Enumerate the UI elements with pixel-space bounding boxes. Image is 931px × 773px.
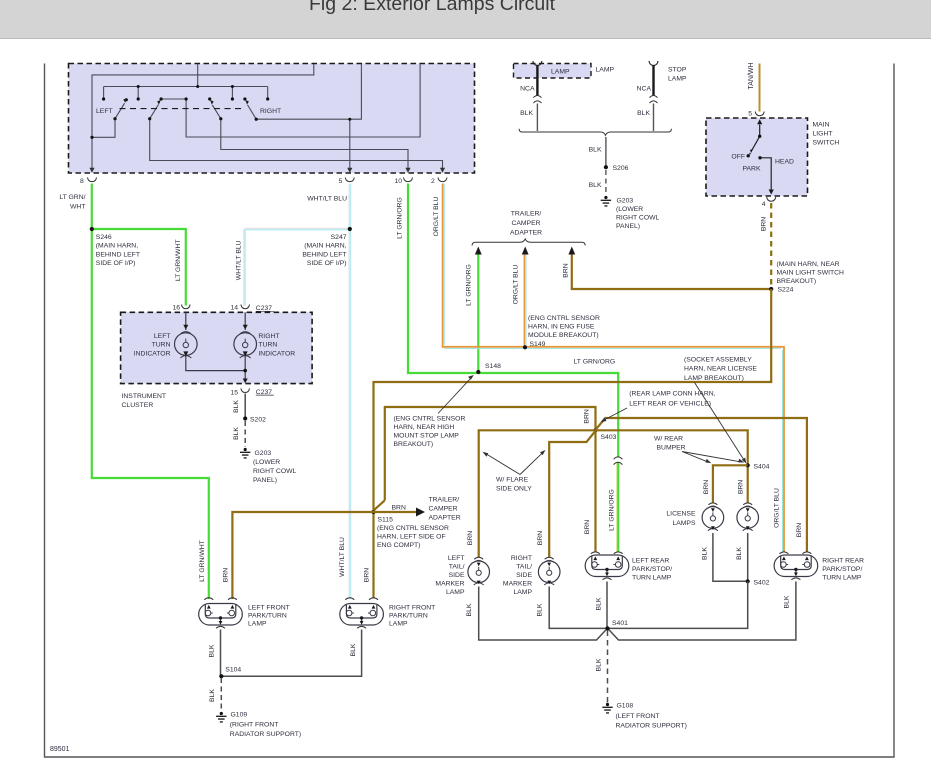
svg-text:PARK/STOP/: PARK/STOP/ xyxy=(822,566,862,573)
wire BLK pin 15 to S202 xyxy=(244,394,246,418)
svg-text:ADAPTER: ADAPTER xyxy=(510,229,542,236)
label TAN/WH (rotated) xyxy=(748,62,755,89)
svg-text:BREAKOUT): BREAKOUT) xyxy=(394,441,434,448)
svg-text:PARK/TURN: PARK/TURN xyxy=(248,612,287,619)
svg-text:BLK: BLK xyxy=(520,110,533,117)
pin 2 label and connector xyxy=(431,177,447,185)
svg-text:LT GRN/WHT: LT GRN/WHT xyxy=(199,540,206,582)
pin 5 of main light switch xyxy=(748,111,764,118)
svg-text:LEFT: LEFT xyxy=(448,555,465,562)
svg-text:TAN/WH: TAN/WH xyxy=(748,62,755,89)
svg-text:BEHIND LEFT: BEHIND LEFT xyxy=(302,251,346,258)
svg-text:BLK: BLK xyxy=(784,595,791,608)
wire BLK right license to S402 xyxy=(747,533,749,580)
svg-text:RIGHT COWL: RIGHT COWL xyxy=(616,215,660,222)
wire BLK left rear lamp to S401 xyxy=(606,582,608,628)
wire LT GRN/WHT branch to left turn indicator xyxy=(92,229,186,306)
svg-text:LEFT: LEFT xyxy=(96,108,113,115)
svg-text:BRN: BRN xyxy=(222,568,229,582)
wire BRN S403 to left tail marker lamp xyxy=(479,430,596,557)
splice S246 xyxy=(90,227,140,267)
svg-text:BLK: BLK xyxy=(589,147,602,154)
svg-text:WHT: WHT xyxy=(70,204,85,211)
svg-text:(MAIN HARN, NEAR: (MAIN HARN, NEAR xyxy=(777,261,840,268)
svg-text:(ENG CNTRL SENSOR: (ENG CNTRL SENSOR xyxy=(394,415,466,422)
svg-text:LAMP: LAMP xyxy=(551,69,570,76)
svg-text:(LEFT FRONT: (LEFT FRONT xyxy=(616,713,660,720)
svg-text:LAMP: LAMP xyxy=(248,620,267,627)
svg-text:S401: S401 xyxy=(612,620,628,627)
svg-text:BEHIND LEFT: BEHIND LEFT xyxy=(96,251,140,258)
wire BRN main run S224 to S115 xyxy=(374,289,772,599)
figure number 89501 xyxy=(50,746,70,753)
wire BLK S402 to S401 xyxy=(610,581,748,628)
svg-text:S402: S402 xyxy=(754,579,770,586)
svg-text:BLK: BLK xyxy=(589,182,602,189)
label BRN (left front lamp, rotated) xyxy=(222,568,229,582)
svg-text:(REAR LAMP CONN HARN,: (REAR LAMP CONN HARN, xyxy=(629,391,715,398)
svg-text:BLK: BLK xyxy=(596,597,603,610)
svg-text:BRN: BRN xyxy=(761,217,768,231)
svg-text:STOP: STOP xyxy=(668,67,687,74)
svg-text:LAMP: LAMP xyxy=(668,76,687,83)
svg-text:BLK: BLK xyxy=(209,644,216,657)
splice S402 xyxy=(746,579,770,586)
svg-text:CAMPER: CAMPER xyxy=(511,220,540,227)
svg-text:LAMPS: LAMPS xyxy=(672,520,696,527)
label BLK (rotated) xyxy=(233,400,240,413)
ground G203 (lower right cowl panel, left) xyxy=(240,448,297,484)
wire BLK right marker to S401 xyxy=(549,587,605,629)
svg-text:HARN, IN ENG FUSE: HARN, IN ENG FUSE xyxy=(528,323,595,330)
svg-text:HARN, NEAR LICENSE: HARN, NEAR LICENSE xyxy=(684,366,757,373)
svg-text:(RIGHT FRONT: (RIGHT FRONT xyxy=(230,721,279,728)
label BLK (right rear lamp, rotated) xyxy=(784,595,791,608)
svg-text:TRAILER/: TRAILER/ xyxy=(511,210,542,217)
junction dot at indicator commons xyxy=(243,369,247,373)
splice S202 xyxy=(243,416,266,423)
svg-text:BRN: BRN xyxy=(467,531,474,545)
svg-text:PARK/STOP/: PARK/STOP/ xyxy=(632,566,672,573)
svg-text:S224: S224 xyxy=(778,287,794,294)
ground G109 xyxy=(216,712,301,738)
label BLK (right front, rotated) xyxy=(350,643,357,656)
svg-text:G203: G203 xyxy=(617,198,634,205)
switch contact dots xyxy=(90,85,351,139)
wire BRN S403 to S404 xyxy=(596,430,748,503)
svg-text:LT GRN/ORG: LT GRN/ORG xyxy=(608,489,615,531)
main light switch box xyxy=(706,118,808,196)
label ORG/LT BLU (branch, rotated) xyxy=(512,265,519,305)
svg-text:ENG COMPT): ENG COMPT) xyxy=(377,542,420,549)
svg-text:LT GRN/: LT GRN/ xyxy=(59,194,85,201)
svg-text:OFF: OFF xyxy=(731,154,745,161)
svg-text:BLK: BLK xyxy=(702,547,709,560)
main light switch internals xyxy=(751,125,771,191)
wire BRN branch to S403 (rear lamps) xyxy=(374,407,596,511)
svg-text:G108: G108 xyxy=(617,703,634,710)
svg-text:TURN: TURN xyxy=(258,342,277,349)
svg-text:14: 14 xyxy=(230,305,238,312)
svg-text:LT GRN/ORG: LT GRN/ORG xyxy=(574,359,616,366)
lamp: right license xyxy=(737,503,759,531)
svg-text:BLK: BLK xyxy=(466,603,473,616)
label WHT/LT BLU (top) xyxy=(307,196,347,203)
instrument cluster box xyxy=(121,312,313,383)
splice S401 xyxy=(605,620,628,631)
svg-text:LT GRN/WHT: LT GRN/WHT xyxy=(175,239,182,281)
lamp: right rear park/stop/turn xyxy=(774,552,818,580)
svg-text:S202: S202 xyxy=(250,417,266,424)
label BLK (left license, rotated) xyxy=(702,547,709,560)
text RIGHT TAIL/SIDE MARKER LAMP xyxy=(503,555,533,596)
svg-text:16: 16 xyxy=(172,305,180,312)
svg-text:5: 5 xyxy=(339,178,343,185)
svg-text:(LOWER: (LOWER xyxy=(253,459,280,466)
text LEFT FRONT PARK/TURN LAMP xyxy=(248,604,290,627)
svg-text:PANEL): PANEL) xyxy=(616,223,640,230)
wire BLK right rear lamp jog to S401 xyxy=(609,582,796,641)
label BRN (right license, rotated) xyxy=(738,480,745,494)
note W/ FLARE SIDE ONLY xyxy=(483,450,546,493)
text INSTRUMENT CLUSTER xyxy=(122,393,167,409)
svg-text:BLK: BLK xyxy=(637,110,650,117)
label BRN (right rear lamp, rotated) xyxy=(796,523,803,537)
label BLK (right marker, rotated) xyxy=(537,603,544,616)
ground G108 xyxy=(602,703,687,730)
label BLK (dashed segment) xyxy=(589,182,602,189)
label LAMP (outside box) xyxy=(596,67,615,74)
svg-text:SIDE ONLY: SIDE ONLY xyxy=(496,486,532,493)
svg-text:LEFT FRONT: LEFT FRONT xyxy=(248,604,290,611)
label BRN (pin 4, rotated) xyxy=(761,217,768,231)
label WHT/LT BLU (branch, rotated) xyxy=(235,240,242,280)
label BRN (left marker, rotated) xyxy=(467,531,474,545)
svg-text:2: 2 xyxy=(431,178,435,185)
text RIGHT FRONT PARK/TURN LAMP xyxy=(389,604,435,627)
wire BLK left marker jog to S401 xyxy=(479,587,607,641)
text STOP LAMP xyxy=(668,67,687,83)
label HEAD xyxy=(775,158,794,165)
right turn indicator xyxy=(234,312,257,381)
label LT GRN/ORG (horizontal run) xyxy=(574,359,616,366)
svg-text:S403: S403 xyxy=(601,434,617,441)
svg-text:MAIN LIGHT SWITCH: MAIN LIGHT SWITCH xyxy=(777,269,845,276)
svg-text:NCA: NCA xyxy=(520,86,535,93)
stop lamp ground stem xyxy=(605,137,607,167)
svg-text:BUMPER: BUMPER xyxy=(657,445,686,452)
text LEFT REAR PARK/STOP/TURN LAMP xyxy=(632,557,672,581)
svg-text:RADIATOR SUPPORT): RADIATOR SUPPORT) xyxy=(616,722,687,729)
svg-text:TAIL/: TAIL/ xyxy=(516,563,532,570)
svg-text:HARN, NEAR HIGH: HARN, NEAR HIGH xyxy=(394,424,455,431)
splice S224 xyxy=(769,261,844,294)
label LT GRN/WHT (lower, rotated) xyxy=(199,540,206,582)
svg-text:BRN: BRN xyxy=(796,523,803,537)
wire BRN dashed from pin 4 to S224 xyxy=(770,203,772,287)
splice S403 xyxy=(593,428,616,441)
switch linkage dashed line xyxy=(120,108,245,110)
high mount stop lamp box xyxy=(514,64,592,79)
svg-text:SIDE OF I/P): SIDE OF I/P) xyxy=(96,260,136,267)
wire BLK left license to S402 xyxy=(713,533,746,581)
svg-text:4: 4 xyxy=(762,201,766,208)
switch pin exit arrows xyxy=(89,168,445,173)
wire LT GRN/WHT from pin 8 to left front lamp xyxy=(92,184,209,600)
label BLK (dashed, rotated) xyxy=(233,427,240,440)
svg-text:S404: S404 xyxy=(754,463,770,470)
wire BRN S403 jog to right tail marker lamp xyxy=(549,431,595,557)
note SOCKET ASSEMBLY HARN NEAR LICENSE LAMP BREAKOUT xyxy=(684,356,757,463)
stop lamp feed wire (left) with connector xyxy=(533,61,542,131)
svg-text:LEFT: LEFT xyxy=(154,333,171,340)
svg-text:(SOCKET ASSEMBLY: (SOCKET ASSEMBLY xyxy=(684,356,752,363)
svg-text:S247: S247 xyxy=(331,234,347,241)
label WHT/LT BLU (lower, rotated) xyxy=(339,537,346,577)
svg-text:5: 5 xyxy=(748,111,752,118)
splice S404 xyxy=(746,463,770,470)
main light switch arrows and contacts xyxy=(749,119,774,194)
svg-text:S206: S206 xyxy=(613,165,629,172)
label BRN (above S403, rotated) xyxy=(584,409,591,423)
splice S149 with branch to trailer adapter xyxy=(523,254,546,350)
svg-text:MOUNT STOP LAMP: MOUNT STOP LAMP xyxy=(394,433,460,440)
label ORG/LT BLU (pin 2, rotated) xyxy=(433,197,440,237)
note REAR LAMP CONN HARN LEFT REAR OF VEHICLE xyxy=(601,391,716,423)
label NCA (right) xyxy=(637,86,652,93)
left turn indicator xyxy=(175,312,246,370)
svg-text:LEFT REAR OF VEHICLE): LEFT REAR OF VEHICLE) xyxy=(629,401,711,408)
label LT GRN/ORG (pin 10, rotated) xyxy=(397,197,404,239)
ground G203 (lower right cowl panel, middle) xyxy=(601,196,660,230)
svg-text:BRN: BRN xyxy=(562,263,569,277)
wire WHT/LT BLU branch to right turn indicator xyxy=(244,228,350,305)
label BLK (ground stem) xyxy=(589,147,602,154)
svg-text:WHT/LT BLU: WHT/LT BLU xyxy=(235,240,242,280)
wire break connector on LT GRN/ORG xyxy=(614,457,623,465)
svg-text:BLK: BLK xyxy=(233,400,240,413)
svg-text:MAIN: MAIN xyxy=(813,122,830,129)
text TRAILER/CAMPER ADAPTER (middle) xyxy=(510,210,542,236)
svg-text:TURN LAMP: TURN LAMP xyxy=(632,575,672,582)
text TRAILER/CAMPER ADAPTER (at S115) xyxy=(429,497,461,522)
dashed BLK wire S104 to G109 xyxy=(220,678,222,712)
svg-text:(MAIN HARN,: (MAIN HARN, xyxy=(96,243,138,250)
svg-text:ADAPTER: ADAPTER xyxy=(429,515,461,522)
dashed BLK wire S206 to G203 xyxy=(605,170,607,196)
svg-text:RIGHT: RIGHT xyxy=(260,108,281,115)
svg-text:TAIL/: TAIL/ xyxy=(449,563,465,570)
wire ORG/LT BLU from pin 2 to right rear lamp xyxy=(443,184,784,553)
svg-text:SIDE: SIDE xyxy=(449,572,465,579)
label BLK (left rear lamp, rotated) xyxy=(596,597,603,610)
svg-text:BRN: BRN xyxy=(537,531,544,545)
text LEFT TURN INDICATOR xyxy=(134,333,171,357)
label BLK (S104 dashed, rotated) xyxy=(209,689,216,702)
svg-text:NCA: NCA xyxy=(637,86,652,93)
text ENG CNTRL SENSOR HARN IN ENG FUSE MODULE BREAKOUT xyxy=(528,315,600,339)
title text xyxy=(0,0,864,16)
switch blade arrowheads xyxy=(123,98,249,105)
text MAIN LIGHT SWITCH xyxy=(813,122,840,147)
label ORG/LT BLU (lower, rotated) xyxy=(773,488,780,528)
svg-text:BLK: BLK xyxy=(537,603,544,616)
label BRN (branch, rotated) xyxy=(562,263,569,277)
svg-text:S149: S149 xyxy=(530,341,546,348)
svg-text:LAMP: LAMP xyxy=(513,589,532,596)
wire LT GRN/ORG tracer on vertical run xyxy=(616,460,618,552)
connector C237 pin 16 xyxy=(172,305,190,312)
svg-text:ORG/LT BLU: ORG/LT BLU xyxy=(512,265,519,305)
svg-text:BRN: BRN xyxy=(584,409,591,423)
svg-text:G203: G203 xyxy=(255,450,272,457)
label BRN (right front lamp, rotated) xyxy=(363,568,370,582)
label BRN (left license, rotated) xyxy=(703,480,710,494)
svg-text:SIDE OF I/P): SIDE OF I/P) xyxy=(307,260,347,267)
pin 10 label and connector xyxy=(395,177,413,185)
lamp: right tail/side marker xyxy=(538,557,560,585)
label LT GRN/ORG (lower, rotated) xyxy=(608,489,615,531)
svg-text:W/ REAR: W/ REAR xyxy=(654,436,683,443)
label BLK (left marker, rotated) xyxy=(466,603,473,616)
svg-text:LAMP: LAMP xyxy=(389,620,408,627)
splice S104 xyxy=(219,667,241,679)
svg-text:BRN: BRN xyxy=(703,480,710,494)
svg-text:INDICATOR: INDICATOR xyxy=(258,350,295,357)
svg-text:(LOWER: (LOWER xyxy=(616,206,643,213)
stop lamp wire (right) with connector xyxy=(649,61,658,131)
svg-text:(ENG CNTRL SENSOR: (ENG CNTRL SENSOR xyxy=(377,525,449,532)
svg-text:MARKER: MARKER xyxy=(435,581,464,588)
pin 5 label and connector xyxy=(339,177,355,185)
svg-text:LIGHT: LIGHT xyxy=(813,131,833,138)
wire WHT/LT BLU from pin 5 to right front lamp xyxy=(349,184,350,600)
svg-text:BRN: BRN xyxy=(738,480,745,494)
svg-text:WHT/LT BLU: WHT/LT BLU xyxy=(339,537,346,577)
svg-text:PANEL): PANEL) xyxy=(253,477,277,484)
text LEFT TAIL/SIDE MARKER LAMP xyxy=(435,555,465,596)
svg-text:RIGHT: RIGHT xyxy=(511,555,532,562)
svg-text:RIGHT: RIGHT xyxy=(258,333,279,340)
RIGHT label xyxy=(260,108,281,115)
splice S148 with branch to trailer adapter xyxy=(476,254,501,375)
turn signal switch box xyxy=(69,64,475,174)
wire BLK right front lamp to S104 xyxy=(222,630,361,677)
svg-text:S246: S246 xyxy=(96,234,112,241)
svg-text:CLUSTER: CLUSTER xyxy=(122,402,154,409)
connector C237 pin 15 xyxy=(230,388,273,396)
lamp: right front park/turn xyxy=(340,598,384,629)
svg-text:SIDE: SIDE xyxy=(516,572,532,579)
svg-text:ORG/LT BLU: ORG/LT BLU xyxy=(773,488,780,528)
label C237 (top) xyxy=(256,305,274,312)
label BLK (S401 dashed, rotated) xyxy=(596,658,603,671)
svg-text:BRN: BRN xyxy=(392,505,406,512)
svg-text:S104: S104 xyxy=(225,667,241,674)
svg-text:TURN LAMP: TURN LAMP xyxy=(822,575,862,582)
wire BRN S403 jog to right rear lamp xyxy=(596,418,807,552)
trailer/camper adapter brace (middle) xyxy=(472,239,585,246)
arrow to trailer adapter (ORG/LT BLU) xyxy=(522,247,529,255)
svg-text:(MAIN HARN,: (MAIN HARN, xyxy=(304,243,346,250)
label BLK (right stop lamp wire) xyxy=(637,110,650,117)
svg-text:W/ FLARE: W/ FLARE xyxy=(496,477,529,484)
lamp: left tail/side marker xyxy=(468,557,490,585)
lamp: left front park/turn xyxy=(199,598,243,629)
svg-text:PARK/TURN: PARK/TURN xyxy=(389,612,428,619)
svg-text:G109: G109 xyxy=(231,712,248,719)
svg-text:PARK: PARK xyxy=(743,166,761,173)
svg-text:SWITCH: SWITCH xyxy=(813,140,840,147)
svg-text:INDICATOR: INDICATOR xyxy=(134,350,171,357)
label OFF xyxy=(731,154,745,161)
svg-text:BLK: BLK xyxy=(209,689,216,702)
arrow to trailer adapter (LT GRN/ORG) xyxy=(475,247,482,255)
lamp: left rear park/stop/turn xyxy=(585,552,629,580)
svg-text:BLK: BLK xyxy=(350,643,357,656)
turn signal switch internal wiring xyxy=(92,64,443,171)
label BRN (left rear lamp, rotated) xyxy=(584,520,591,534)
svg-text:BREAKOUT): BREAKOUT) xyxy=(777,278,817,285)
wire TAN/WH to main light switch xyxy=(759,64,761,112)
label BRN (right marker, rotated) xyxy=(537,531,544,545)
svg-text:89501: 89501 xyxy=(50,746,70,753)
note ENG CNTRL SENSOR HARN NEAR HIGH MOUNT STOP LAMP BREAKOUT xyxy=(394,375,474,448)
LEFT label xyxy=(96,108,113,115)
svg-text:(ENG CNTRL SENSOR: (ENG CNTRL SENSOR xyxy=(528,315,600,322)
svg-text:LT GRN/ORG: LT GRN/ORG xyxy=(397,197,404,239)
splice S247 xyxy=(302,227,352,267)
label BLK (right license, rotated) xyxy=(736,547,743,560)
svg-text:LAMP BREAKOUT): LAMP BREAKOUT) xyxy=(684,375,744,382)
wire BRN S404 to left license lamp xyxy=(713,465,748,503)
svg-text:S148: S148 xyxy=(485,363,501,370)
dashed BLK wire S401 to G108 xyxy=(607,631,609,703)
svg-text:BRN: BRN xyxy=(584,520,591,534)
label LT GRN/WHT (branch, rotated) xyxy=(175,239,182,281)
svg-text:CAMPER: CAMPER xyxy=(429,506,458,513)
pin 4 of main light switch xyxy=(762,197,776,208)
label LT GRN/ORG (branch, rotated) xyxy=(465,264,472,306)
text LICENSE LAMPS xyxy=(666,510,696,527)
svg-text:15: 15 xyxy=(230,389,238,396)
wire BRN S115 to left front lamp xyxy=(232,512,373,599)
svg-text:HEAD: HEAD xyxy=(775,158,794,165)
svg-text:BLK: BLK xyxy=(596,658,603,671)
svg-text:TRAILER/: TRAILER/ xyxy=(429,497,460,504)
arrow to trailer adapter (BRN) xyxy=(568,247,575,255)
svg-text:LAMP: LAMP xyxy=(596,67,615,74)
title bar xyxy=(0,0,931,39)
label PARK xyxy=(743,166,761,173)
svg-text:LT GRN/ORG: LT GRN/ORG xyxy=(465,264,472,306)
svg-text:LEFT REAR: LEFT REAR xyxy=(632,557,669,564)
label BLK (left stop lamp wire) xyxy=(520,110,533,117)
label LT GRN/WHT (top left) xyxy=(59,194,85,211)
svg-text:RIGHT COWL: RIGHT COWL xyxy=(253,468,297,475)
pin 8 label and connector xyxy=(80,177,97,185)
text RIGHT REAR PARK/STOP/TURN LAMP xyxy=(822,557,864,581)
svg-text:HARN, LEFT SIDE OF: HARN, LEFT SIDE OF xyxy=(377,534,446,541)
wire BLK left front lamp to S104 xyxy=(220,630,222,676)
note W/ REAR BUMPER xyxy=(654,436,744,464)
wire LT GRN/ORG from pin 10 to left rear lamp xyxy=(408,184,618,553)
svg-text:BLK: BLK xyxy=(233,427,240,440)
connector C237 pin 14 xyxy=(230,305,249,312)
svg-text:RIGHT FRONT: RIGHT FRONT xyxy=(389,604,435,611)
svg-text:MARKER: MARKER xyxy=(503,581,532,588)
svg-text:WHT/LT BLU: WHT/LT BLU xyxy=(307,196,347,203)
